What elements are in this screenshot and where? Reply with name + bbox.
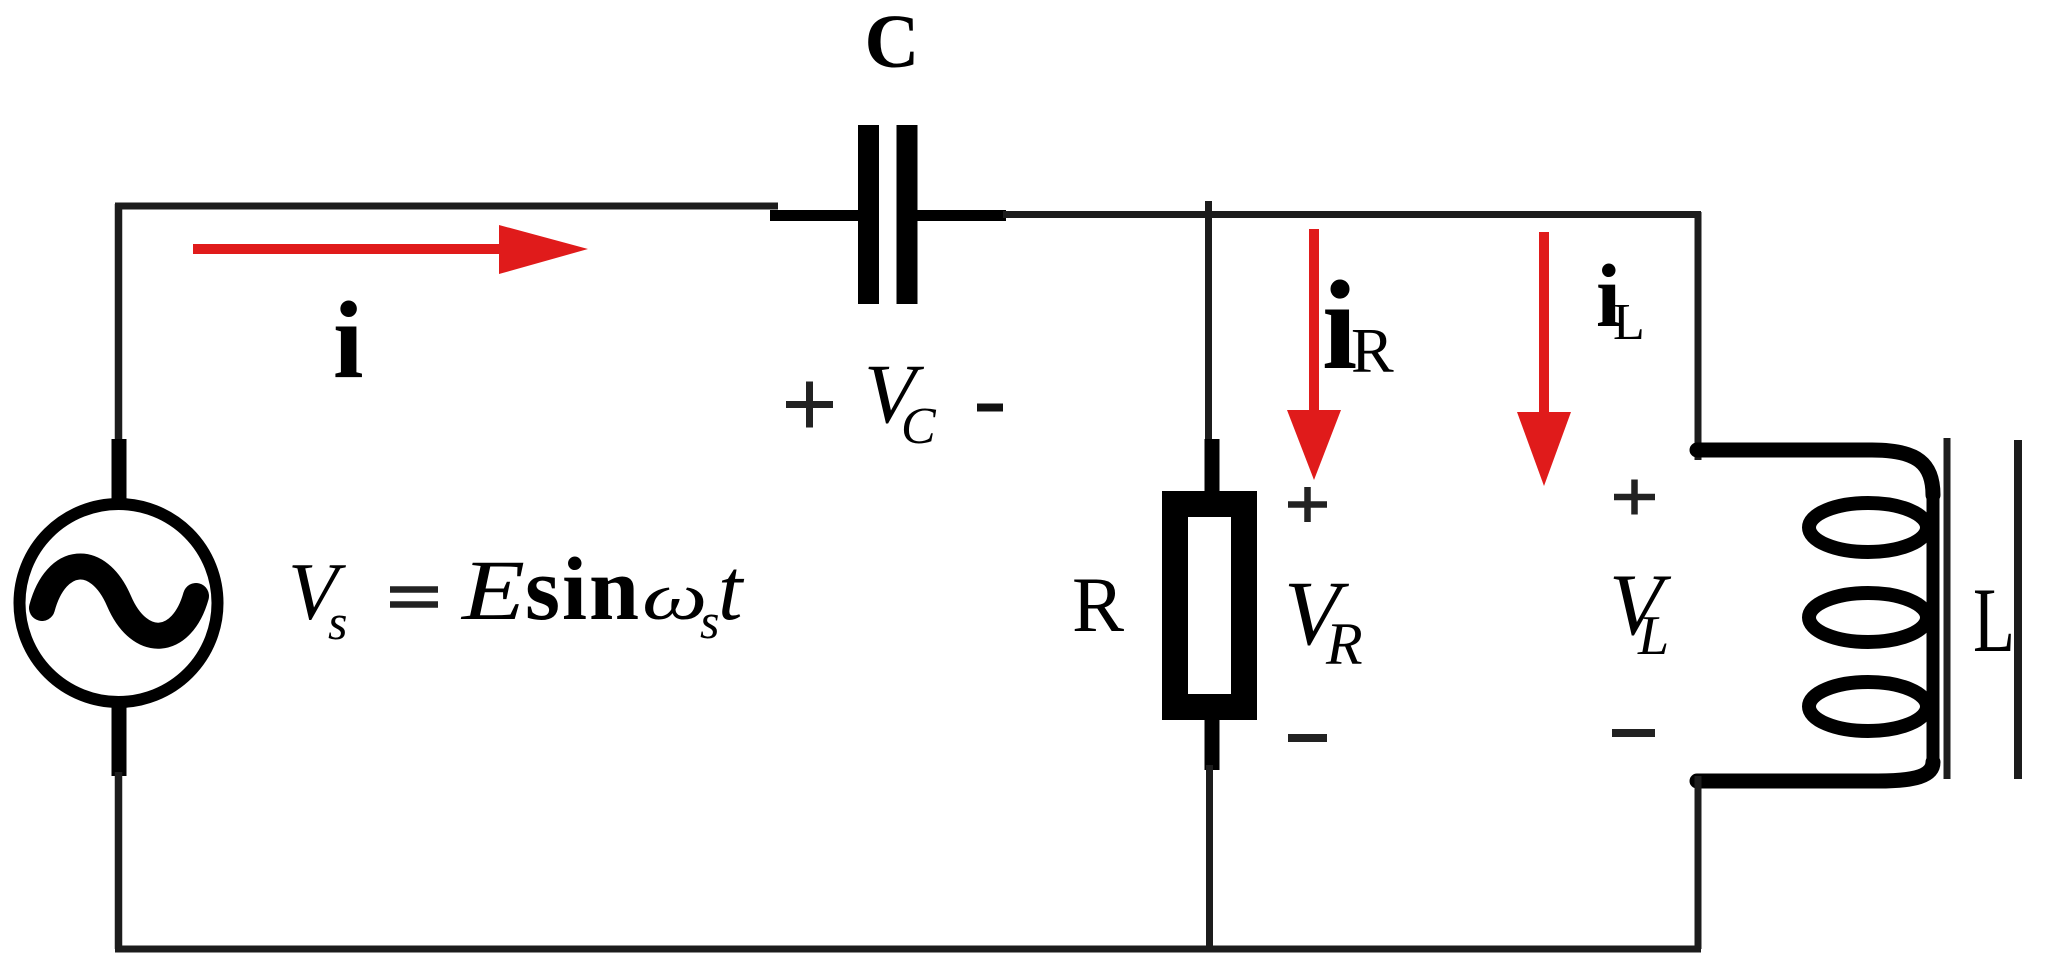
current arrow iL (red) xyxy=(1517,232,1571,486)
label + (VL) xyxy=(1614,480,1655,515)
current arrow iR (red) xyxy=(1287,229,1341,480)
capacitor C1 left lead xyxy=(770,210,859,221)
inductor L1 loop 3 xyxy=(1809,682,1927,731)
wire top-left horizontal (source top node to capacitor) xyxy=(115,203,778,210)
AC source top lead xyxy=(112,439,127,500)
inductor L1 bottom lead xyxy=(1697,762,1933,781)
wire inductor branch upper vertical xyxy=(1695,212,1702,460)
wire bottom horizontal xyxy=(115,946,1701,953)
label - (VL) xyxy=(1612,729,1655,737)
inductor L1 top lead xyxy=(1697,450,1933,495)
label +Vc- xyxy=(786,347,1003,455)
label iL xyxy=(1596,247,1645,351)
AC source bottom lead xyxy=(112,706,127,776)
wire left vertical (top corner down to source) xyxy=(115,204,123,444)
capacitor C1 left plate xyxy=(858,125,879,304)
inductor core bar 1 xyxy=(1944,438,1951,779)
AC source sine wave xyxy=(42,567,196,636)
wire inductor branch lower vertical xyxy=(1695,776,1702,949)
svg-text:t: t xyxy=(718,542,745,639)
svg-text:R: R xyxy=(1351,315,1394,386)
label VR xyxy=(1284,562,1363,677)
resistor R1 body xyxy=(1175,504,1244,707)
inductor L1 loop 2 xyxy=(1809,593,1927,642)
svg-text:ω: ω xyxy=(642,559,707,634)
wire left vertical lower (source to bottom wire) xyxy=(115,772,123,949)
svg-text:L: L xyxy=(1973,569,2015,671)
wire resistor branch lower xyxy=(1206,765,1213,949)
capacitor C1 right plate xyxy=(897,125,918,304)
svg-text:s: s xyxy=(700,593,719,649)
wire top-right horizontal (capacitor to inductor branch) xyxy=(1003,211,1701,218)
label + (VR) xyxy=(1288,487,1327,522)
svg-text:L: L xyxy=(1637,605,1669,667)
svg-text:sin: sin xyxy=(525,540,641,639)
inductor L1 loop 1 xyxy=(1809,503,1927,552)
inductor core bar 2 xyxy=(2014,440,2022,779)
AC source V1 circle xyxy=(20,504,218,702)
svg-text:i: i xyxy=(333,279,364,401)
inductor L1 right spine xyxy=(1927,493,1940,764)
svg-text:s: s xyxy=(328,594,347,650)
current arrow i (red) xyxy=(193,225,588,274)
resistor R1 top lead xyxy=(1205,439,1220,500)
svg-text:R: R xyxy=(1325,611,1363,677)
svg-text:C: C xyxy=(865,0,920,84)
label iR xyxy=(1322,256,1394,396)
wire resistor branch upper xyxy=(1205,201,1212,444)
label - (VR) xyxy=(1288,734,1327,742)
resistor R1 bottom lead xyxy=(1205,714,1220,770)
svg-text:E: E xyxy=(460,542,525,638)
label Vs = E sin ws t xyxy=(288,540,745,650)
svg-text:R: R xyxy=(1072,561,1124,648)
svg-text:L: L xyxy=(1613,294,1645,351)
svg-text:C: C xyxy=(901,398,937,455)
capacitor C1 right lead xyxy=(917,210,1006,221)
label VL xyxy=(1609,557,1672,667)
